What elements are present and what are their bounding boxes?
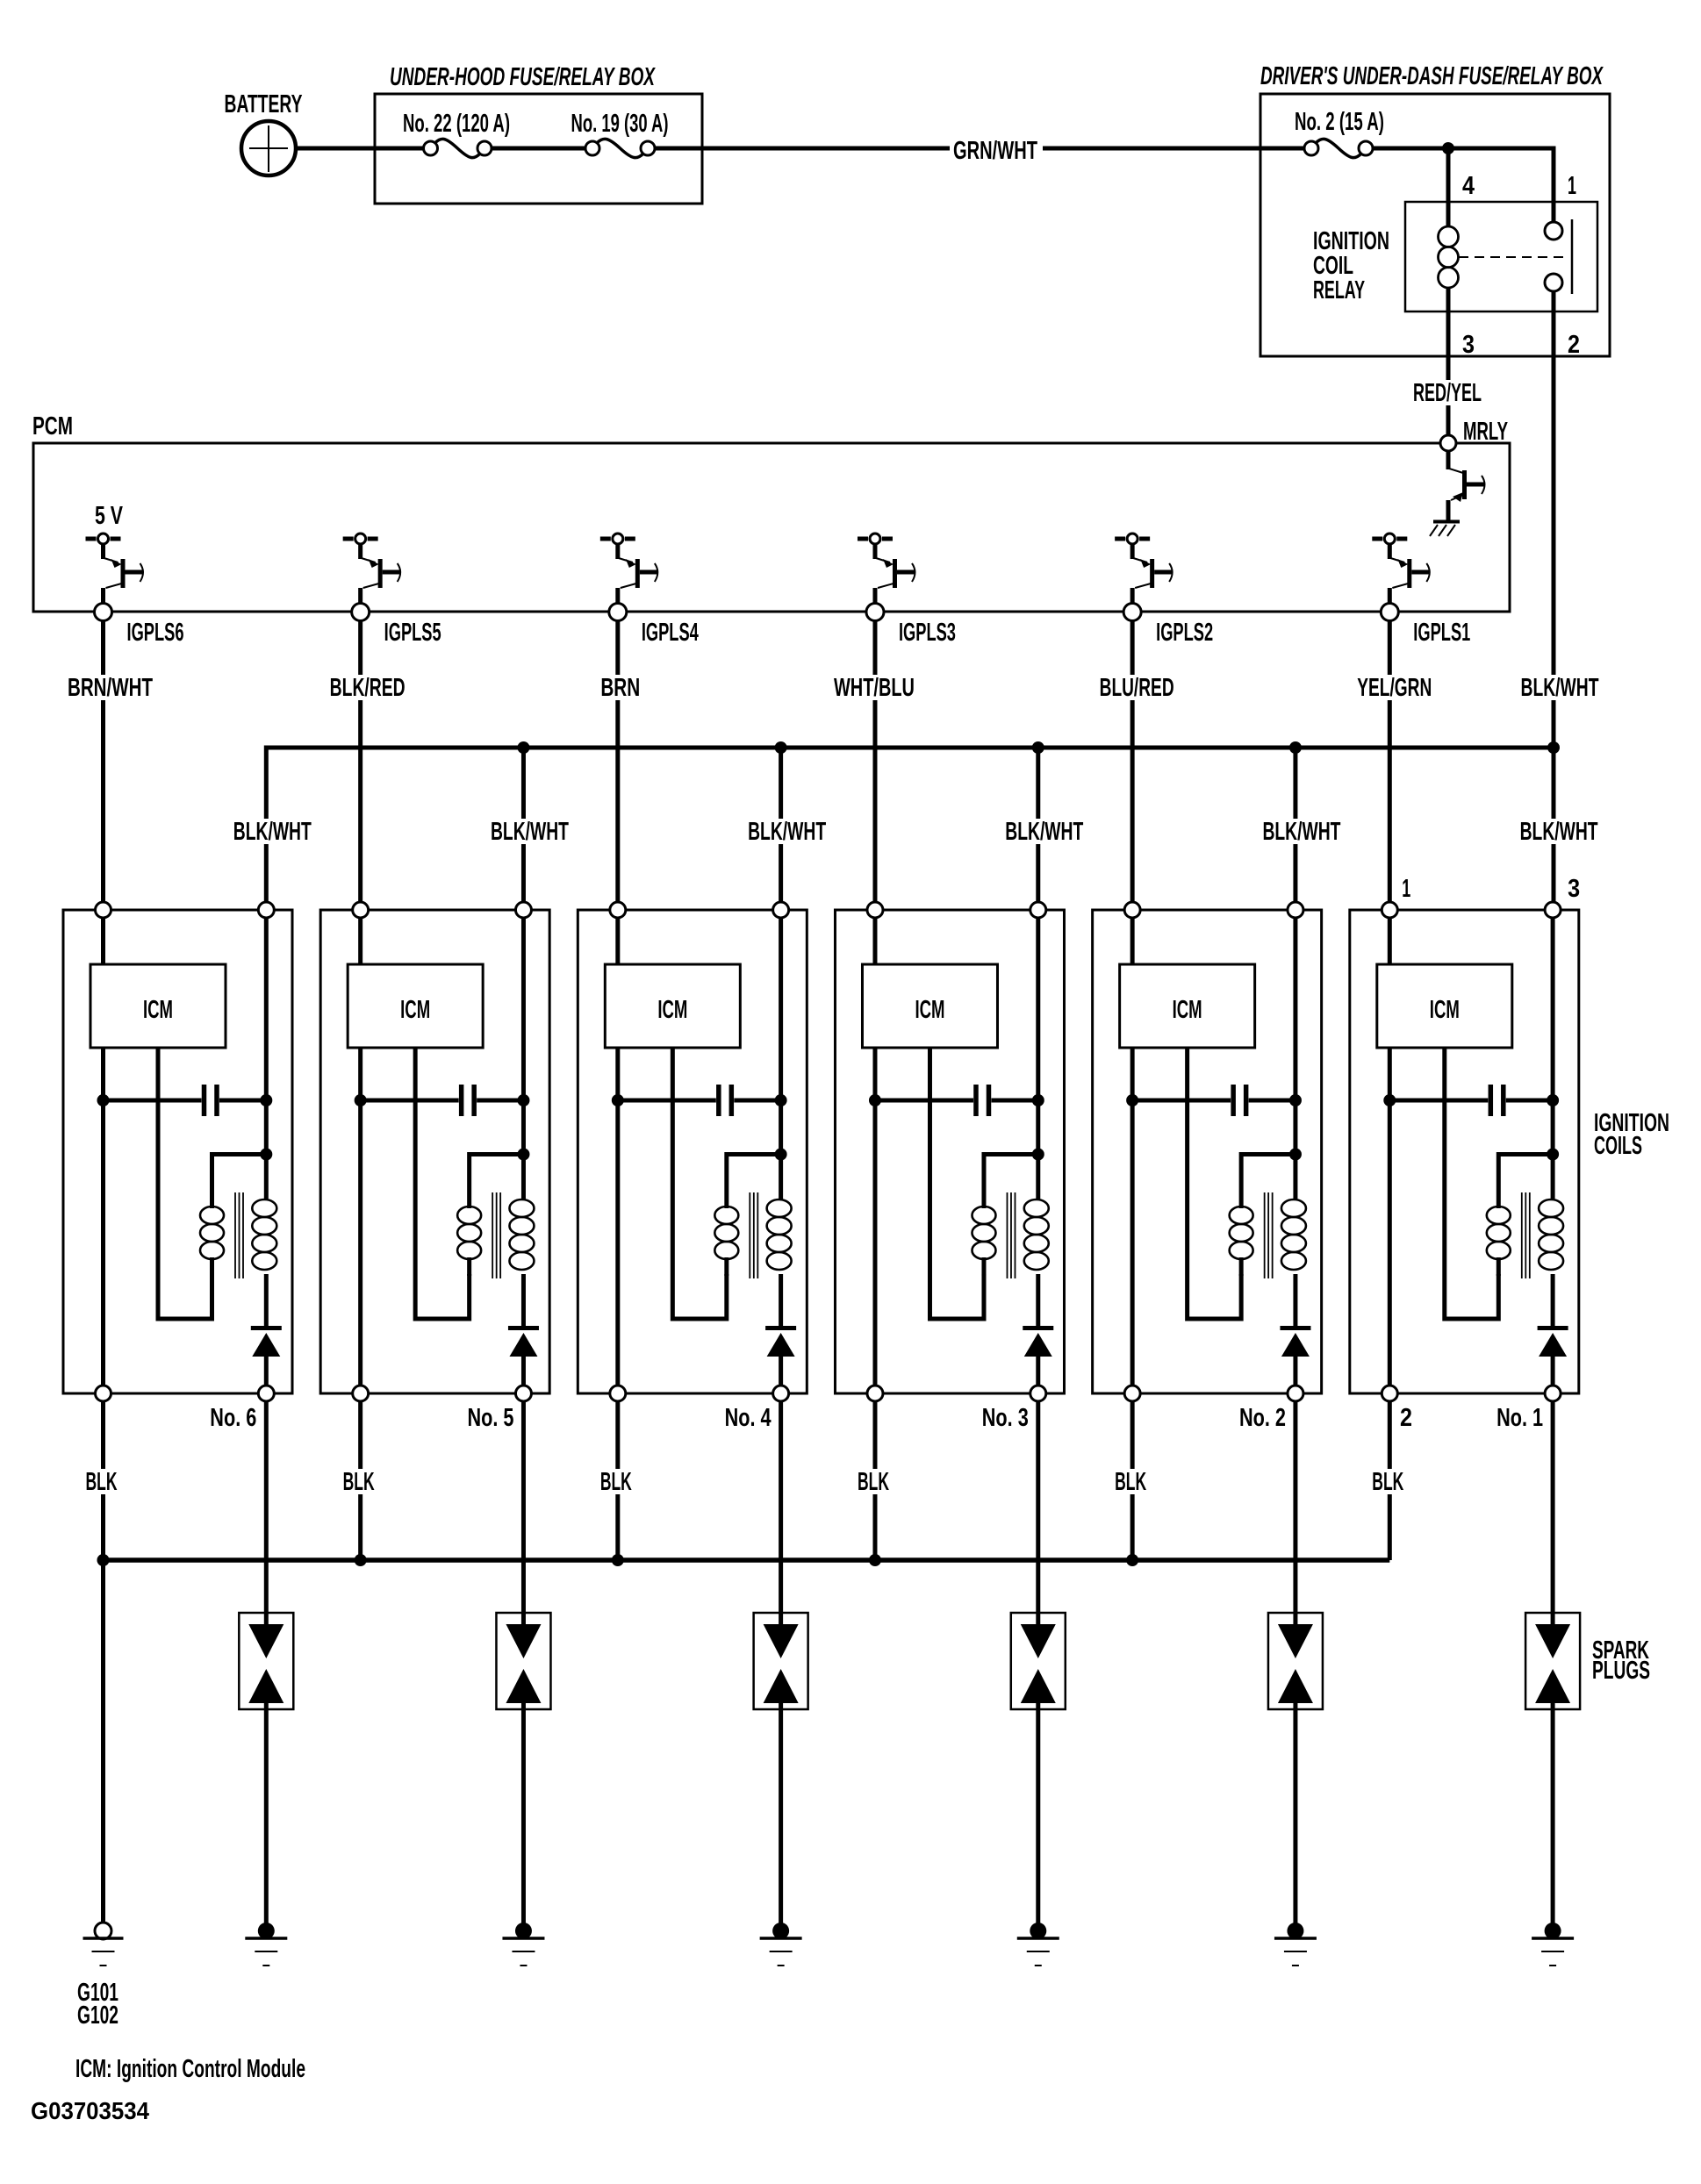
- svg-text:BLK/WHT: BLK/WHT: [1262, 818, 1340, 846]
- svg-text:ICM: ICM: [1173, 996, 1202, 1024]
- svg-text:IGPLS4: IGPLS4: [642, 619, 699, 647]
- label IGNITION COILS: [1594, 1109, 1669, 1160]
- svg-text:No. 2: No. 2: [1239, 1404, 1286, 1432]
- wire BLU/RED IGPLS2 to coil: [1097, 620, 1177, 903]
- svg-text:UNDER-HOOD FUSE/RELAY BOX: UNDER-HOOD FUSE/RELAY BOX: [390, 63, 656, 91]
- svg-text:IGPLS2: IGPLS2: [1156, 619, 1213, 647]
- wire BLK coil No. 2 to ground bus: [1112, 1401, 1149, 1560]
- node IGPLS3 pin: [899, 619, 956, 647]
- wire BRN/WHT IGPLS6 to coil: [65, 620, 155, 903]
- svg-text:1: 1: [1568, 172, 1576, 200]
- svg-text:BRN/WHT: BRN/WHT: [68, 674, 153, 702]
- transistor IGPLS3 driver: [858, 533, 915, 621]
- svg-text:ICM: ICM: [400, 996, 430, 1024]
- svg-text:No. 5: No. 5: [467, 1404, 513, 1432]
- svg-text:BLK/WHT: BLK/WHT: [491, 818, 569, 846]
- note ICM definition: [75, 2055, 305, 2083]
- svg-text:4: 4: [1462, 172, 1475, 200]
- ignition coil No. 5 (ICM + coil): [320, 902, 549, 1401]
- spark plug No. 3: [1011, 1401, 1066, 1923]
- ignition coil relay: [1313, 172, 1597, 359]
- transistor IGPLS2 driver: [1115, 533, 1173, 621]
- wire fuse22 to fuse19: [492, 147, 585, 151]
- svg-text:ICM: ICM: [657, 996, 687, 1024]
- transistor MRLY driver: [1430, 451, 1485, 536]
- svg-text:COILS: COILS: [1594, 1132, 1642, 1160]
- transistor IGPLS5 driver: [343, 533, 401, 621]
- ground G101 G102: [77, 1923, 124, 2030]
- under-hood fuse/relay box: [375, 63, 702, 204]
- svg-text:BLK/WHT: BLK/WHT: [233, 818, 312, 846]
- transistor IGPLS6 driver: [86, 502, 144, 621]
- battery B1: [225, 90, 303, 175]
- node IGPLS6 pin: [127, 619, 184, 647]
- wire BLK/WHT bus with branches: [231, 741, 1601, 903]
- svg-text:BLK: BLK: [1115, 1468, 1146, 1496]
- svg-text:BRN: BRN: [600, 674, 640, 702]
- node pin labels coil 1: [1402, 875, 1580, 903]
- node label No. 6: [210, 1404, 256, 1432]
- svg-text:IGPLS3: IGPLS3: [899, 619, 956, 647]
- svg-text:IGPLS1: IGPLS1: [1413, 619, 1470, 647]
- wire BLK coil No. 6 to ground bus: [83, 1401, 120, 1923]
- ground spark plug No. 1: [1532, 1923, 1574, 1966]
- wire ground bus: [97, 1554, 1390, 1566]
- ignition coil No. 1 (ICM + coil): [1350, 902, 1579, 1401]
- node IGPLS1 pin: [1413, 619, 1470, 647]
- svg-text:BATTERY: BATTERY: [225, 90, 303, 118]
- ignition coil No. 3 (ICM + coil): [835, 902, 1064, 1401]
- wire GRN/WHT: [655, 137, 1304, 165]
- svg-text:RED/YEL: RED/YEL: [1413, 379, 1482, 407]
- fuse No. 2 (15 A): [1295, 108, 1384, 158]
- node label No. 2: [1239, 1404, 1286, 1432]
- wire BRN IGPLS4 to coil: [598, 620, 642, 903]
- ignition coil No. 2 (ICM + coil): [1093, 902, 1322, 1401]
- svg-text:BLK/WHT: BLK/WHT: [1520, 818, 1598, 846]
- relay contact: [1459, 219, 1572, 294]
- wire node to relay pin 4: [1446, 148, 1451, 226]
- svg-text:No. 4: No. 4: [725, 1404, 772, 1432]
- PCM box: [32, 412, 1510, 612]
- fuse No. 19 (30 A): [571, 110, 669, 158]
- svg-text:MRLY: MRLY: [1463, 418, 1508, 446]
- node IGPLS2 pin: [1156, 619, 1213, 647]
- svg-text:RELAY: RELAY: [1313, 276, 1365, 304]
- node IGPLS5 pin: [384, 619, 441, 647]
- transistor IGPLS1 driver: [1372, 533, 1430, 621]
- svg-text:No. 3: No. 3: [982, 1404, 1029, 1432]
- wire BLK coil No. 5 to ground bus: [341, 1401, 377, 1560]
- svg-text:BLU/RED: BLU/RED: [1100, 674, 1174, 702]
- node label No. 5: [467, 1404, 513, 1432]
- svg-text:5 V: 5 V: [95, 502, 123, 530]
- node IGPLS4 pin: [642, 619, 699, 647]
- ground spark plug No. 2: [1274, 1923, 1317, 1966]
- wire BLK coil No. 1 to ground bus: [1369, 1401, 1406, 1560]
- spark plug No. 2: [1268, 1401, 1323, 1923]
- node fuse2 junction: [1442, 142, 1454, 154]
- ground spark plug No. 4: [760, 1923, 802, 1966]
- wire battery to under-hood box: [296, 147, 423, 151]
- svg-text:2: 2: [1400, 1404, 1412, 1432]
- spark plug No. 4: [754, 1401, 808, 1923]
- node MRLY: [1440, 418, 1508, 451]
- svg-text:3: 3: [1462, 331, 1475, 359]
- node label No. 3: [982, 1404, 1029, 1432]
- svg-text:DRIVER'S UNDER-DASH FUSE/RELAY: DRIVER'S UNDER-DASH FUSE/RELAY BOX: [1260, 62, 1604, 90]
- svg-text:ICM: Ignition Control Module: ICM: Ignition Control Module: [75, 2055, 305, 2083]
- svg-text:BLK/WHT: BLK/WHT: [748, 818, 826, 846]
- svg-text:YEL/GRN: YEL/GRN: [1357, 674, 1432, 702]
- svg-text:No. 1: No. 1: [1496, 1404, 1543, 1432]
- node label No. 1: [1400, 1404, 1543, 1432]
- ignition coil No. 6 (ICM + coil): [63, 902, 292, 1401]
- svg-text:IGPLS6: IGPLS6: [127, 619, 184, 647]
- svg-text:2: 2: [1568, 331, 1580, 359]
- wire RED/YEL relay pin3 to MRLY: [1410, 311, 1484, 435]
- driver's under-dash fuse/relay box: [1260, 62, 1610, 356]
- wire BLK coil No. 3 to ground bus: [855, 1401, 892, 1560]
- wire BLK coil No. 4 to ground bus: [598, 1401, 635, 1560]
- label SPARK PLUGS: [1592, 1636, 1650, 1685]
- ground spark plug No. 3: [1017, 1923, 1059, 1966]
- svg-text:BLK/WHT: BLK/WHT: [1005, 818, 1083, 846]
- svg-text:G102: G102: [77, 2001, 118, 2030]
- wire YEL/GRN IGPLS1 to coil: [1354, 620, 1434, 903]
- svg-text:ICM: ICM: [1430, 996, 1460, 1024]
- svg-text:ICM: ICM: [915, 996, 944, 1024]
- svg-text:G03703534: G03703534: [31, 2097, 149, 2124]
- svg-text:WHT/BLU: WHT/BLU: [834, 674, 915, 702]
- svg-text:1: 1: [1402, 875, 1410, 903]
- wire fuse2 to node: [1373, 148, 1554, 222]
- wire BLK/RED IGPLS5 to coil: [327, 620, 408, 903]
- svg-text:ICM: ICM: [143, 996, 173, 1024]
- fuse No. 22 (120 A): [403, 110, 510, 158]
- svg-text:BLK: BLK: [1372, 1468, 1403, 1496]
- svg-text:PLUGS: PLUGS: [1592, 1657, 1650, 1685]
- spark plug No. 6: [239, 1401, 293, 1923]
- svg-text:BLK/WHT: BLK/WHT: [1521, 674, 1599, 702]
- svg-text:PCM: PCM: [32, 412, 73, 440]
- wire WHT/BLU IGPLS3 to coil: [831, 620, 917, 903]
- transistor IGPLS4 driver: [600, 533, 658, 621]
- svg-text:No. 6: No. 6: [210, 1404, 256, 1432]
- svg-text:BLK/RED: BLK/RED: [330, 674, 406, 702]
- ignition coil No. 4 (ICM + coil): [578, 902, 807, 1401]
- svg-text:No. 19 (30 A): No. 19 (30 A): [571, 110, 669, 138]
- spark plug No. 5: [496, 1401, 550, 1923]
- svg-text:BLK: BLK: [600, 1468, 632, 1496]
- ground spark plug No. 5: [502, 1923, 544, 1966]
- svg-text:3: 3: [1568, 875, 1580, 903]
- svg-text:GRN/WHT: GRN/WHT: [953, 137, 1037, 165]
- spark plug No. 1: [1525, 1401, 1580, 1923]
- ground spark plug No. 6: [245, 1923, 287, 1966]
- svg-text:No. 2 (15 A): No. 2 (15 A): [1295, 108, 1384, 136]
- svg-text:IGPLS5: IGPLS5: [384, 619, 441, 647]
- relay coil winding: [1439, 226, 1459, 311]
- figure id G03703534: [31, 2097, 149, 2124]
- svg-text:No. 22 (120 A): No. 22 (120 A): [403, 110, 510, 138]
- wire BLK/WHT relay pin2 down right side: [1518, 291, 1602, 748]
- node label No. 4: [725, 1404, 772, 1432]
- svg-text:BLK: BLK: [343, 1468, 375, 1496]
- svg-text:BLK: BLK: [86, 1468, 118, 1496]
- svg-text:BLK: BLK: [858, 1468, 889, 1496]
